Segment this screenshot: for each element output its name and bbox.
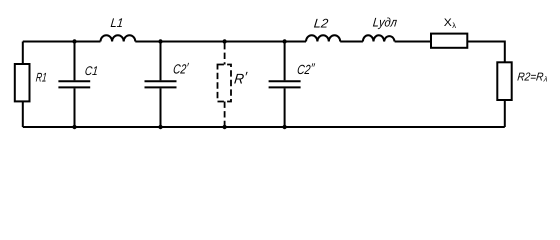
node: junction dot R' bottom xyxy=(222,125,226,129)
svg-text:L1: L1 xyxy=(110,16,124,30)
label C2'' xyxy=(296,60,315,77)
resistor R2 xyxy=(497,62,511,100)
svg-text:R1: R1 xyxy=(35,70,47,84)
wire: right vertical below R2 xyxy=(504,100,506,127)
inductor L2 xyxy=(306,35,340,41)
capacitor C1 xyxy=(58,42,90,127)
wire: top rail between L2 and Lудл xyxy=(340,41,363,43)
node: junction dot C1 top xyxy=(72,39,76,43)
wire: top rail between L1 and L2 xyxy=(135,41,306,43)
label L1 xyxy=(110,16,124,30)
label R1 xyxy=(35,70,47,84)
label R' xyxy=(233,69,248,87)
label L2 xyxy=(313,17,329,31)
svg-text:R2=R: R2=R xyxy=(517,72,544,84)
svg-text:λ: λ xyxy=(452,21,456,30)
svg-text:C2′: C2′ xyxy=(172,60,189,77)
capacitor C2'' xyxy=(269,42,301,127)
node: junction dot R' top xyxy=(222,39,226,43)
label R2=R_lambda xyxy=(517,72,544,84)
capacitor C2' xyxy=(145,42,177,127)
node: junction dot C2'' bottom xyxy=(282,125,286,129)
label C2' xyxy=(172,60,189,77)
resistor R' (dashed, with dashed leads) xyxy=(218,43,232,126)
inductor Lудл xyxy=(363,35,395,41)
node: junction dot C2' bottom xyxy=(158,125,162,129)
svg-text:C1: C1 xyxy=(84,64,98,78)
label Lудл xyxy=(372,16,397,30)
node: junction dot C2'' top xyxy=(282,39,286,43)
wire: top rail left segment (corner to L1) xyxy=(23,41,101,43)
wire: top rail from X box to right corner, down to R2 xyxy=(467,42,505,63)
node: junction dot C1 bottom xyxy=(72,125,76,129)
svg-text:L2: L2 xyxy=(313,17,329,31)
wire: left vertical above R1 xyxy=(22,42,24,128)
svg-text:C2′′: C2′′ xyxy=(296,60,315,77)
resistor R1 xyxy=(15,64,30,101)
svg-text:X: X xyxy=(444,17,453,29)
wire: bottom rail xyxy=(23,126,505,128)
svg-text:Lудл: Lудл xyxy=(372,16,397,30)
label C1 xyxy=(84,64,98,78)
inductor L1 xyxy=(101,35,136,41)
reactance box X_lambda xyxy=(431,34,467,48)
wire: top rail between Lудл and X box xyxy=(395,41,431,43)
node: junction dot C2' top xyxy=(158,39,162,43)
